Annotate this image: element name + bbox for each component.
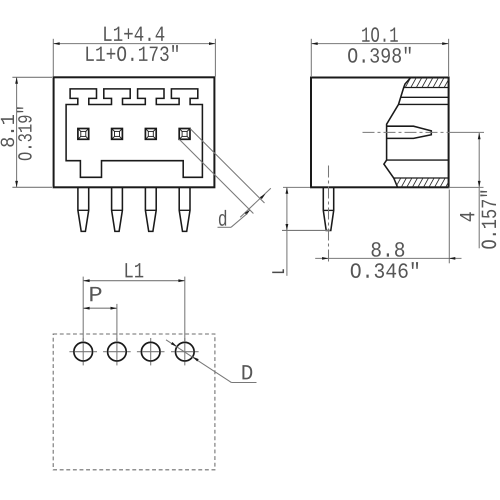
pcb outline dashed bbox=[53, 334, 215, 470]
dim d extension line upper bbox=[190, 129, 265, 204]
dim 4 extension line top bbox=[455, 131, 484, 133]
dim 10.1 arrow right bbox=[442, 42, 448, 45]
dim 10.1 dimension line bbox=[311, 43, 448, 45]
front view square pin 1 bbox=[78, 129, 89, 140]
dim L1 dimension line bbox=[83, 280, 185, 282]
dim P extension line right bbox=[116, 304, 118, 342]
dim 10.1 extension line left bbox=[310, 39, 312, 77]
dim 4 arrow top bbox=[478, 133, 481, 139]
dim 8.1 extension line top bbox=[12, 76, 52, 78]
dim text 4 bbox=[460, 212, 474, 221]
dim L extension line top bbox=[283, 186, 310, 188]
dim text L1 bbox=[125, 263, 143, 277]
dim D arrow lower bbox=[193, 357, 199, 362]
dim P dimension line bbox=[83, 307, 117, 309]
dim 4 extension line bottom bbox=[449, 186, 484, 188]
front view solder pin leg 2 bbox=[112, 187, 123, 231]
dim L1 extension line left bbox=[82, 277, 84, 342]
dim P arrow left bbox=[83, 307, 89, 310]
drill hole 2 bbox=[108, 342, 127, 361]
front view square pin 4 bbox=[179, 129, 190, 140]
dim d extension line lower bbox=[179, 139, 253, 213]
side view inner line y160 bbox=[387, 159, 449, 161]
side view body outline bbox=[311, 78, 449, 188]
drill hole 2 centerlines bbox=[103, 338, 131, 365]
side view inner line y87 bbox=[404, 87, 449, 89]
dim L1 extension line right bbox=[184, 277, 186, 342]
dim text 0.319in bbox=[17, 107, 32, 160]
side view inner line y97 bbox=[401, 96, 449, 98]
drill hole 1 centerlines bbox=[69, 338, 97, 365]
dim text 0.157in bbox=[480, 191, 496, 249]
dim text P bbox=[90, 287, 101, 301]
dim d arrow upper bbox=[260, 194, 266, 199]
front view square pin 2 bbox=[112, 129, 123, 140]
side view inner line y178 bbox=[394, 177, 449, 179]
dim 8.1 dimension line bbox=[16, 77, 18, 187]
side view mating pin bbox=[387, 126, 432, 138]
front view inner housing profile bbox=[66, 89, 202, 177]
front view solder pin leg 3 bbox=[145, 187, 156, 231]
dim L1+4.4 extension line left bbox=[52, 39, 54, 77]
dim 8.1 arrow top bbox=[15, 77, 18, 83]
front view solder pin leg 1 bbox=[78, 187, 89, 231]
side view inner line y104 bbox=[399, 103, 449, 105]
dim 8.8 arrow left bbox=[322, 257, 328, 260]
dim L1+4.4 arrow right bbox=[209, 42, 215, 45]
dim L1+4.4 extension line right bbox=[214, 39, 216, 77]
dim text 0.398in bbox=[348, 47, 411, 63]
dim L1+4.4 arrow left bbox=[53, 42, 59, 45]
side view socket cavity profile bbox=[384, 78, 411, 188]
dim L arrow bottom bbox=[286, 224, 289, 230]
dim text 8.8 bbox=[372, 242, 405, 257]
drill hole 3 centerlines bbox=[137, 338, 165, 365]
dim text 8.1 bbox=[1, 115, 15, 147]
dim 8.8 dimension line bbox=[315, 257, 461, 259]
front view body outline bbox=[54, 77, 215, 187]
dim text L bbox=[272, 269, 283, 272]
dim 8.8 arrow right bbox=[449, 257, 455, 260]
side view leg centerline bbox=[328, 166, 330, 265]
dim L1+4.4 dimension line bbox=[53, 43, 215, 45]
dim text 0.346in bbox=[351, 262, 418, 278]
dim text L1+4.4 bbox=[104, 27, 164, 41]
dim text 10.1 bbox=[362, 27, 398, 42]
dim text D bbox=[242, 365, 252, 379]
dim L1 arrow left bbox=[83, 279, 89, 282]
dim D arrow upper bbox=[171, 342, 177, 347]
dim 10.1 arrow left bbox=[311, 42, 317, 45]
dim L arrow top bbox=[286, 187, 289, 193]
front view square pin 3 bbox=[145, 129, 156, 140]
drill hole 1 bbox=[74, 342, 93, 361]
dim text L1+0.173in bbox=[86, 45, 178, 61]
dim text d bbox=[219, 210, 226, 226]
dim 8.8 extension line right bbox=[448, 190, 450, 264]
side view pin centerline bbox=[363, 131, 456, 133]
dim L dimension line bbox=[286, 187, 288, 275]
dim 4 dimension line bbox=[478, 133, 480, 248]
dim L1 arrow right bbox=[178, 279, 184, 282]
dim 10.1 extension line right bbox=[448, 39, 450, 77]
dim d dimension line bbox=[240, 188, 271, 217]
dim d leader line bbox=[218, 226, 232, 228]
dim d arrow lower bbox=[245, 210, 251, 215]
dim P arrow right bbox=[111, 307, 117, 310]
dim 4 arrow bottom bbox=[478, 181, 481, 187]
dim 8.1 extension line bottom bbox=[12, 186, 52, 188]
drill hole 4 centerlines bbox=[171, 338, 199, 365]
side view solder leg bbox=[323, 187, 333, 230]
drill hole 3 bbox=[141, 342, 160, 361]
front view solder pin leg 4 bbox=[179, 187, 190, 231]
dim L extension line bottom bbox=[282, 229, 330, 231]
drill hole 4 bbox=[176, 342, 195, 361]
dim 8.1 arrow bottom bbox=[15, 181, 18, 187]
dim D leader line bbox=[166, 340, 231, 383]
